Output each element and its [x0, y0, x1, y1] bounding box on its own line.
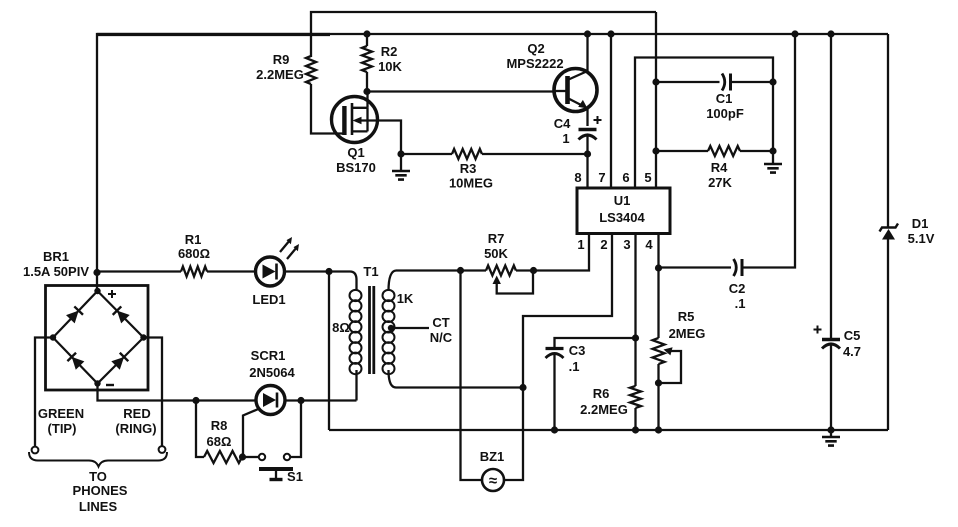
node R6 bottom [632, 426, 639, 433]
diode BR1 bottom-left [67, 353, 84, 370]
svg-text:1: 1 [577, 237, 584, 252]
svg-text:4: 4 [645, 237, 653, 252]
node T1 pin2 junction [519, 384, 526, 391]
wire LED junction drop [328, 272, 330, 431]
node R7 left [457, 267, 464, 274]
svg-text:R4: R4 [711, 160, 728, 175]
node R5 bottom [655, 379, 662, 386]
potentiometer R5 [653, 268, 706, 383]
wire +V rail [97, 34, 888, 273]
svg-text:1K: 1K [397, 291, 414, 306]
svg-text:R7: R7 [488, 231, 505, 246]
node C5 bottom [827, 426, 834, 433]
svg-text:2.2MEG: 2.2MEG [580, 402, 628, 417]
wire pin 8 [586, 154, 588, 188]
svg-text:(TIP): (TIP) [48, 421, 77, 436]
node LED output [325, 268, 332, 275]
svg-text:BZ1: BZ1 [480, 449, 505, 464]
switch S1 [243, 401, 303, 485]
svg-text:2MEG: 2MEG [669, 326, 706, 341]
wire pin 1 [534, 234, 590, 271]
pin label 8 [574, 170, 581, 185]
wire Q1 drain to Q2 base [367, 90, 554, 92]
resistor R1 [178, 232, 256, 277]
node Q2 collector rail [584, 30, 591, 37]
svg-text:T1: T1 [363, 264, 378, 279]
pin label 7 [598, 170, 605, 185]
scr SCR1 [196, 348, 301, 457]
IC U1 [577, 188, 670, 234]
svg-text:8: 8 [574, 170, 581, 185]
zener D1 [880, 34, 935, 430]
pin label 5 [644, 170, 651, 185]
node R5 rail [655, 426, 662, 433]
svg-text:N/C: N/C [430, 330, 453, 345]
node C5 rail [827, 30, 834, 37]
svg-text:S1: S1 [287, 469, 303, 484]
svg-text:R3: R3 [460, 161, 477, 176]
bridge BR1 box [46, 286, 149, 391]
led LED1 [252, 237, 329, 307]
svg-text:C4: C4 [554, 116, 571, 131]
svg-text:TO: TO [89, 469, 107, 484]
svg-text:SCR1: SCR1 [251, 348, 286, 363]
diode BR1 bottom-right [111, 353, 128, 370]
svg-text:1: 1 [562, 131, 569, 146]
svg-text:2: 2 [600, 237, 607, 252]
node BR1 plus [94, 288, 100, 294]
svg-text:.1: .1 [569, 359, 580, 374]
pin label 4 [645, 237, 653, 252]
svg-text:LS3404: LS3404 [599, 210, 645, 225]
node R4 left [652, 147, 659, 154]
svg-text:LINES: LINES [79, 499, 118, 514]
wire pin 5 [655, 12, 657, 188]
node T1 CT [388, 325, 394, 331]
resistor R2 [362, 34, 403, 92]
wire pin 7 [610, 34, 612, 188]
svg-text:5: 5 [644, 170, 651, 185]
node pin 7 rail [607, 30, 614, 37]
svg-text:R1: R1 [185, 232, 202, 247]
pin label 3 [623, 237, 630, 252]
wire pin 4 [657, 234, 659, 269]
mosfet Q1 [332, 92, 402, 176]
svg-text:R8: R8 [211, 418, 228, 433]
svg-text:R9: R9 [273, 52, 290, 67]
pin label 6 [622, 170, 629, 185]
diode BR1 right-top [113, 306, 130, 323]
svg-text:100pF: 100pF [706, 106, 744, 121]
transformer T1 [329, 264, 414, 401]
wire ground rail [329, 429, 888, 431]
transistor Q2 [506, 34, 597, 126]
svg-text:5.1V: 5.1V [908, 231, 935, 246]
potentiometer R7 [484, 231, 533, 294]
node C2 rail [791, 30, 798, 37]
diode BR1 left-top [66, 306, 83, 323]
svg-text:10K: 10K [378, 59, 402, 74]
svg-text:7: 7 [598, 170, 605, 185]
terminal GREEN [32, 338, 85, 454]
svg-text:D1: D1 [912, 216, 929, 231]
svg-text:4.7: 4.7 [843, 344, 861, 359]
node R8 S1 gate [239, 453, 246, 460]
resistor R6 [580, 338, 641, 430]
svg-text:C5: C5 [844, 328, 861, 343]
svg-text:Q1: Q1 [347, 145, 364, 160]
svg-text:RED: RED [123, 406, 150, 421]
ground main [822, 430, 840, 446]
svg-text:(RING): (RING) [115, 421, 156, 436]
svg-text:6: 6 [622, 170, 629, 185]
node R7 right [530, 267, 537, 274]
svg-text:R6: R6 [593, 386, 610, 401]
svg-text:27K: 27K [708, 175, 732, 190]
wire T1 secondary bottom [396, 386, 523, 388]
svg-text:680Ω: 680Ω [178, 246, 210, 261]
svg-text:68Ω: 68Ω [207, 434, 232, 449]
capacitor C1 [656, 74, 773, 122]
ground Q1 source [392, 154, 410, 180]
node BR1 ac left [50, 334, 56, 340]
wire pin 2 [504, 234, 612, 481]
capacitor C3 [546, 338, 636, 430]
buzzer BZ1 [461, 271, 505, 492]
wire T1 secondary to R7 [396, 269, 486, 271]
brace to phone lines [29, 452, 167, 514]
wire T1 CT tap [391, 315, 453, 345]
svg-text:10MEG: 10MEG [449, 176, 493, 191]
wire R5 to rail [657, 383, 659, 430]
node C1 left [652, 78, 659, 85]
node Q1 drain [363, 88, 370, 95]
wire R9 to Q1 gate [311, 84, 343, 134]
node C1 right [769, 78, 776, 85]
pin label 1 [577, 237, 584, 252]
svg-text:PHONES: PHONES [73, 483, 128, 498]
svg-text:LED1: LED1 [252, 292, 285, 307]
wire BR1 plus lead [96, 273, 98, 292]
node BR1 ac right [140, 334, 146, 340]
svg-text:GREEN: GREEN [38, 406, 84, 421]
label BR1 minus [106, 384, 114, 386]
wire top jumper [311, 12, 656, 57]
svg-text:.1: .1 [735, 296, 746, 311]
resistor R3 [401, 149, 588, 191]
svg-text:8Ω: 8Ω [332, 320, 350, 335]
capacitor C4 [554, 116, 602, 154]
resistor R4 [656, 146, 773, 190]
node C4 bottom [584, 150, 591, 157]
svg-text:BS170: BS170 [336, 160, 376, 175]
node R4 right [769, 147, 776, 154]
label BR1 plus [108, 290, 116, 298]
svg-text:≈: ≈ [489, 473, 497, 490]
svg-text:R2: R2 [381, 44, 398, 59]
capacitor C5 [814, 34, 862, 430]
svg-text:50K: 50K [484, 246, 508, 261]
label BR1 [23, 249, 89, 279]
svg-text:1.5A 50PIV: 1.5A 50PIV [23, 264, 89, 279]
resistor R9 [256, 52, 316, 84]
node BR1 minus [94, 380, 100, 386]
svg-text:Q2: Q2 [527, 41, 544, 56]
pin label 2 [600, 237, 607, 252]
svg-text:MPS2222: MPS2222 [506, 56, 563, 71]
svg-text:C3: C3 [569, 343, 586, 358]
node SCR cathode [297, 397, 304, 404]
wire BR1 minus to SCR [98, 384, 197, 401]
node SCR anode [192, 397, 199, 404]
terminal RED [115, 338, 165, 453]
resistor R8 [196, 401, 242, 464]
svg-text:U1: U1 [614, 193, 631, 208]
wire pin 3 [634, 234, 636, 339]
svg-text:BR1: BR1 [43, 249, 69, 264]
capacitor C2 [659, 34, 796, 311]
node BR1 top junction [93, 269, 100, 276]
svg-text:CT: CT [432, 315, 449, 330]
wire pin 6 loop [635, 58, 773, 189]
node R2 top [363, 30, 370, 37]
svg-text:3: 3 [623, 237, 630, 252]
svg-text:R5: R5 [678, 309, 695, 324]
node C3 bottom [551, 426, 558, 433]
ground R4 [764, 151, 782, 173]
node pin 4 [655, 264, 662, 271]
svg-text:2.2MEG: 2.2MEG [256, 67, 304, 82]
wire BR1 to R1 [97, 270, 181, 272]
wire SCR to T1 primary [301, 399, 357, 401]
svg-text:2N5064: 2N5064 [249, 365, 295, 380]
svg-text:C1: C1 [716, 91, 733, 106]
svg-text:C2: C2 [729, 281, 746, 296]
node pin 3 bottom [632, 334, 639, 341]
node Q1 source [397, 150, 404, 157]
